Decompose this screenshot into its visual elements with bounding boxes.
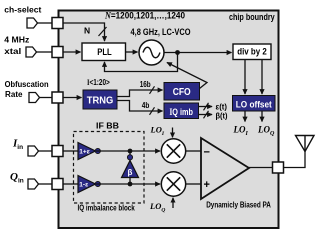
mixer 2 — [161, 172, 185, 196]
svg-text:+: + — [204, 179, 210, 191]
wire Q_in to port — [39, 183, 53, 185]
wire div2 to LO offset right — [261, 60, 263, 95]
wire LO_Q into mixer2 — [172, 198, 174, 208]
node Q wire junction — [128, 182, 133, 187]
mixer 1 — [161, 139, 185, 163]
node I wire junction — [128, 149, 133, 154]
op-amp PA — [201, 138, 249, 199]
node VCO output junction — [175, 50, 180, 55]
wire div2 to LO offset left — [244, 60, 246, 95]
svg-text:4 MHz: 4 MHz — [4, 35, 29, 44]
svg-text:N=1200,1201,…,1240: N=1200,1201,…,1240 — [104, 11, 185, 21]
wire mixer1 to PA — [186, 150, 201, 152]
svg-text:−: − — [204, 147, 210, 159]
svg-text:1-ε: 1-ε — [79, 182, 88, 189]
svg-text:Obfuscation: Obfuscation — [5, 80, 49, 89]
PLL box — [82, 43, 126, 61]
svg-text:β(t): β(t) — [216, 111, 228, 121]
wire beta link — [129, 151, 131, 184]
svg-text:ch-select: ch-select — [4, 5, 41, 14]
svg-text:PLL: PLL — [97, 47, 112, 58]
wire TRNG to IQ imb 4b — [117, 101, 163, 112]
wire to antenna — [284, 152, 306, 168]
slash epsilon — [204, 103, 209, 111]
LO offset box — [233, 96, 276, 112]
wire N bus — [63, 23, 105, 41]
input buffer xtal — [26, 47, 37, 57]
svg-text:16b: 16b — [140, 80, 151, 89]
wire VCO to div by 2 — [164, 52, 232, 54]
dashed box IQ imbalance block — [74, 132, 145, 204]
svg-text:xtal: xtal — [4, 47, 21, 56]
node beta tip — [127, 155, 132, 160]
svg-text:CFO: CFO — [173, 86, 191, 98]
antenna — [296, 136, 315, 152]
wire TRNG to CFO 16b — [117, 90, 163, 97]
input buffer Q_in — [28, 179, 39, 189]
wire Q_in to amp — [63, 183, 78, 185]
wire amp2 to mixer2 — [96, 183, 160, 185]
slash 16b — [150, 86, 155, 94]
amplifier 1+eps — [78, 143, 96, 160]
amplifier beta — [122, 161, 139, 178]
svg-text:4,8 GHz, LC-VCO: 4,8 GHz, LC-VCO — [131, 27, 191, 37]
wire LO_Q out — [261, 111, 263, 122]
oscillator VCO — [139, 40, 164, 65]
slash beta — [204, 111, 209, 119]
wire ch-select to port — [38, 22, 53, 24]
wire xtal to port — [37, 51, 53, 53]
wire LO_I into mixer1 — [172, 128, 174, 138]
wire beta(t) — [199, 114, 213, 116]
svg-text:div by 2: div by 2 — [237, 46, 267, 56]
svg-text:I<1:20>: I<1:20> — [87, 77, 110, 87]
wire xtal to PLL — [63, 51, 81, 53]
svg-text:chip boundry: chip boundry — [229, 12, 275, 22]
wire LO_I out — [244, 111, 246, 122]
port square ch-select — [52, 18, 63, 29]
svg-text:N: N — [84, 26, 90, 36]
svg-text:LO offset: LO offset — [236, 99, 272, 109]
wire I_in to port — [39, 150, 53, 152]
wire PA to output port — [249, 167, 273, 169]
svg-text:4b: 4b — [142, 101, 150, 110]
svg-text:β: β — [128, 168, 133, 177]
wire rate to TRNG — [63, 97, 82, 99]
wire I_in to amp — [63, 150, 78, 152]
port square obfuscation rate — [52, 92, 63, 103]
slash 4b — [150, 107, 155, 115]
port square I_in — [52, 146, 63, 157]
port square RF out — [273, 162, 284, 173]
node amp2 output — [95, 181, 100, 186]
CFO box — [164, 83, 200, 101]
wire amp1 to mixer1 — [96, 150, 160, 152]
port square xtal — [52, 47, 63, 58]
wire rate to port — [40, 97, 53, 99]
svg-text:Dynamicly Biased PA: Dynamicly Biased PA — [206, 200, 271, 209]
wire CFO to VCO — [167, 63, 207, 89]
svg-text:IQ imb: IQ imb — [169, 107, 193, 117]
svg-text:IF BB: IF BB — [96, 121, 119, 131]
wire epsilon(t) — [199, 106, 213, 108]
svg-text:Rate: Rate — [5, 90, 23, 99]
input buffer ch-select — [27, 18, 38, 28]
port square Q_in — [52, 179, 63, 190]
input buffer obfuscation rate — [29, 93, 40, 103]
svg-text:TRNG: TRNG — [87, 95, 114, 107]
wire PLL to VCO — [126, 51, 138, 53]
amplifier 1-eps — [78, 176, 96, 193]
input buffer I_in — [28, 146, 39, 156]
chip boundary — [59, 11, 279, 229]
wire PLL feedback — [105, 53, 178, 72]
IQ imb box — [164, 103, 199, 119]
TRNG box — [83, 90, 117, 109]
div by 2 box — [233, 44, 271, 60]
slash N bus — [99, 27, 107, 36]
svg-text:IQ imbalance block: IQ imbalance block — [78, 203, 136, 212]
node amp1 output — [95, 148, 100, 153]
wire mixer2 to PA — [186, 183, 201, 185]
svg-text:1+ε: 1+ε — [79, 149, 90, 156]
